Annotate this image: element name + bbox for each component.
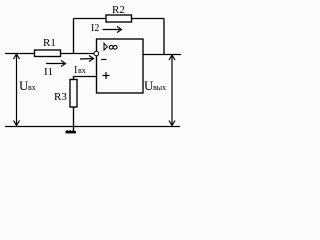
svg-text:I: I — [74, 65, 77, 76]
arrow Uвх (input voltage, double-headed) — [14, 54, 20, 126]
wire R3 to ground — [73, 107, 75, 131]
wire top feedback left — [74, 18, 107, 20]
svg-text:R1: R1 — [43, 37, 56, 49]
op-amp U1 body — [97, 39, 144, 93]
wire right feedback riser — [163, 19, 165, 55]
resistor R2 — [106, 15, 132, 22]
arrow I2 current — [103, 27, 122, 33]
svg-text:R2: R2 — [112, 4, 125, 16]
wire input top — [5, 53, 94, 55]
wire bottom rail — [5, 126, 180, 128]
op-amp U1 minus pin label — [101, 59, 107, 61]
node A left feedback riser — [73, 19, 75, 54]
resistor R1 — [35, 50, 61, 57]
arrow Uвых (output voltage, double-headed) — [169, 55, 175, 126]
op-amp U1 gain triangle — [104, 43, 107, 50]
wire output — [143, 54, 181, 56]
svg-text:I1: I1 — [44, 66, 53, 78]
resistor R3 — [70, 80, 77, 108]
svg-text:вых: вых — [153, 83, 166, 92]
svg-text:I2: I2 — [91, 23, 99, 34]
op-amp U1 inverting input bubble — [94, 51, 99, 56]
op-amp U1 infinity symbol — [109, 45, 113, 49]
op-amp U1 plus pin label — [103, 72, 110, 79]
svg-text:вх: вх — [78, 66, 86, 75]
svg-text:R3: R3 — [54, 91, 67, 103]
wire noninverting input — [74, 77, 97, 80]
arrow I1 current — [46, 61, 66, 67]
arrow Iвх current — [80, 56, 94, 62]
svg-text:вх: вх — [28, 83, 36, 92]
ground — [66, 130, 77, 133]
wire top feedback right — [132, 18, 165, 20]
